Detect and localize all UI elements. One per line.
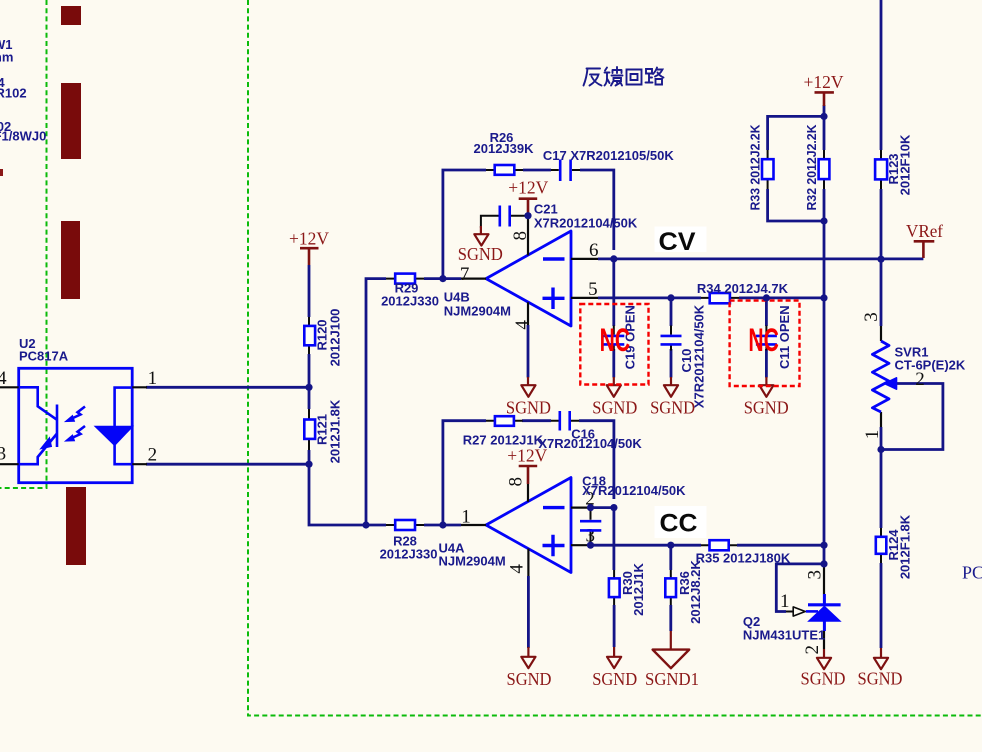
op-amp U4A NJM2904M: [439, 478, 590, 577]
svg-text:C11 OPEN: C11 OPEN: [777, 305, 792, 369]
wire R30 branch: [613, 508, 616, 647]
svg-text:2: 2: [802, 645, 823, 655]
svg-text:R32 2012J2.2K: R32 2012J2.2K: [804, 124, 819, 211]
svg-text:NJM2904M: NJM2904M: [439, 554, 506, 569]
svg-text:C17 X7R2012105/50K: C17 X7R2012105/50K: [543, 148, 674, 163]
title 反馈回路 (feedback loop) drawn as strokes: [584, 67, 664, 86]
NC dashed box 1 (around C19): [580, 304, 648, 385]
svg-text:F1/8WJ0: F1/8WJ0: [0, 129, 46, 144]
resistor R124: [876, 514, 913, 579]
svg-text:PC817A: PC817A: [19, 349, 69, 364]
power port VRef: [906, 221, 943, 258]
ground SGND (U4A pin4): [507, 647, 552, 689]
resistor R29: [381, 274, 439, 309]
net label CC: [655, 506, 707, 538]
wire Q2 reference loop: [776, 564, 824, 612]
svg-text:U4B: U4B: [444, 290, 470, 305]
svg-text:+12V: +12V: [804, 72, 844, 92]
capacitor C16: [538, 411, 642, 451]
maroon bar 3 (cropped component at left edge): [61, 221, 80, 299]
wire U4A pin4 to SGND: [527, 576, 530, 648]
ground SGND (C19): [592, 377, 637, 418]
svg-text:1: 1: [780, 591, 790, 612]
ground SGND (C10): [650, 377, 695, 418]
wire U2 pin1 to R120/R121 node: [146, 386, 309, 389]
svg-text:2012J1K: 2012J1K: [631, 563, 646, 616]
svg-text:NJM431UTE1: NJM431UTE1: [743, 628, 825, 643]
resistor R27: [463, 416, 544, 447]
NC dashed box 2 (around C11): [730, 301, 800, 386]
svg-text:3: 3: [0, 443, 6, 464]
svg-text:X7R2012104/50K: X7R2012104/50K: [692, 304, 707, 408]
power +12V (left, R120 chain): [289, 228, 329, 265]
ground SGND (R30): [592, 647, 637, 689]
svg-text:SGND: SGND: [592, 398, 637, 418]
maroon bar 4 (cropped component below U2): [66, 487, 86, 565]
ground SGND (C21): [458, 226, 503, 264]
svg-text:SGND: SGND: [458, 244, 503, 264]
svg-text:SGND: SGND: [506, 398, 551, 418]
resistor R28: [380, 520, 438, 562]
wire +12V column x=824 (R32 node to Q2): [823, 105, 826, 564]
svg-text:7: 7: [460, 264, 470, 285]
op-amp U4B NJM2904M: [444, 216, 598, 326]
optocoupler U2 PC817A: [0, 336, 147, 483]
ground SGND (R124): [858, 648, 903, 689]
ground SGND1 (R36): [645, 631, 699, 689]
wire right main vertical (VRef/R123/SVR1/R124 column): [880, 0, 883, 648]
svg-text:SGND: SGND: [650, 398, 695, 418]
wire R29 input line and x=366 vertical: [366, 279, 461, 525]
svg-text:+12V: +12V: [508, 177, 548, 197]
svg-text:R35 2012J180K: R35 2012J180K: [696, 551, 791, 566]
wire C19 branch from pin6 node: [612, 259, 615, 378]
resistor R120: [304, 309, 342, 367]
wire U4A feedback loop (R27/C16): [443, 421, 614, 525]
svg-text:R102: R102: [0, 86, 27, 101]
wire U2 pin2 to node: [146, 463, 309, 466]
svg-text:5: 5: [588, 279, 598, 300]
svg-text:VRef: VRef: [906, 221, 943, 241]
resistor R36: [665, 560, 703, 624]
capacitor C10: [661, 304, 707, 408]
wire CV net (pin6 to VRef): [598, 257, 923, 260]
svg-text:8: 8: [510, 231, 531, 241]
svg-text:+12V: +12V: [507, 446, 547, 466]
svg-text:1: 1: [148, 368, 158, 389]
svg-text:2012F1.8K: 2012F1.8K: [898, 514, 913, 579]
svg-text:R34 2012J4.7K: R34 2012J4.7K: [697, 281, 789, 296]
wire +12V via R120/R121 chain to R28 line: [309, 265, 461, 525]
svg-text:SGND1: SGND1: [645, 669, 699, 689]
potentiometer SVR1 CT-6P(E)2K: [872, 326, 966, 427]
svg-text:2012J330: 2012J330: [380, 547, 438, 562]
resistor R34: [697, 281, 789, 304]
svg-text:2012J100: 2012J100: [328, 309, 343, 367]
maroon bar 1 (cropped component at left edge): [61, 6, 81, 25]
svg-text:4: 4: [512, 320, 533, 330]
svg-text:2012F10K: 2012F10K: [898, 134, 913, 195]
capacitor C18: [580, 474, 686, 546]
wire R36 branch to SGND1: [669, 545, 672, 631]
capacitor C11 (not fitted): [756, 305, 792, 369]
maroon bar 2 (cropped component at left edge): [61, 83, 81, 159]
svg-text:SGND: SGND: [858, 669, 903, 689]
resistor R123: [875, 134, 912, 195]
svg-text:X7R2012104/50K: X7R2012104/50K: [538, 436, 642, 451]
resistor R35: [696, 540, 791, 566]
power +12V (R32/R33 divider): [804, 72, 844, 106]
svg-text:CV: CV: [659, 228, 696, 256]
svg-text:SGND: SGND: [744, 398, 789, 418]
capacitor C21: [481, 202, 638, 231]
wire pin5 net (to R34 and +12V divider): [598, 296, 824, 299]
shunt regulator Q2 NJM431UTE1: [743, 564, 841, 649]
ground SGND (C11): [744, 377, 789, 418]
svg-text:PC: PC: [962, 563, 982, 583]
svg-text:X7R2012104/50K: X7R2012104/50K: [534, 215, 638, 230]
svg-text:2: 2: [148, 444, 158, 465]
svg-text:2: 2: [915, 369, 925, 390]
resistor R26: [474, 130, 535, 175]
capacitor C17: [543, 148, 674, 181]
ground SGND (Q2 anode): [801, 649, 846, 689]
svg-text:mm: mm: [0, 50, 13, 65]
svg-text:3: 3: [805, 570, 826, 580]
ground SGND (U4B pin4): [506, 377, 551, 418]
svg-text:+12V: +12V: [289, 228, 329, 248]
power +12V (U4B pin8): [508, 177, 548, 215]
svg-text:R33 2012J2.2K: R33 2012J2.2K: [748, 124, 763, 211]
svg-text:NJM2904M: NJM2904M: [444, 304, 511, 319]
net label CV: [655, 227, 707, 257]
svg-text:2012J330: 2012J330: [381, 294, 439, 309]
svg-text:8: 8: [506, 477, 527, 487]
svg-text:4: 4: [0, 368, 7, 389]
green dashed sheet-partition border left: [0, 0, 47, 488]
svg-text:1: 1: [461, 506, 471, 527]
svg-text:2012J39K: 2012J39K: [474, 141, 535, 156]
wire U4B feedback loop (R26/C17): [443, 170, 614, 279]
svg-text:1: 1: [862, 430, 883, 440]
red tick at left edge: [0, 169, 3, 176]
resistor R33: [748, 124, 774, 211]
svg-text:NC: NC: [600, 322, 631, 358]
svg-text:6: 6: [589, 240, 599, 261]
wire C11 branch: [765, 298, 768, 378]
svg-text:SGND: SGND: [801, 669, 846, 689]
wire R33 parallel loop: [768, 116, 824, 221]
wire U4B pin4 to SGND: [527, 325, 530, 378]
svg-text:CC: CC: [660, 510, 698, 538]
resistor R30: [609, 563, 646, 616]
resistor R121: [304, 399, 342, 463]
wire CC net (pin3 to R35 to Q2 column): [589, 544, 824, 547]
svg-text:SGND: SGND: [507, 669, 552, 689]
svg-text:SGND: SGND: [592, 669, 637, 689]
svg-text:2012J1.8K: 2012J1.8K: [328, 399, 343, 463]
svg-text:C21: C21: [534, 202, 558, 217]
svg-text:X7R2012104/50K: X7R2012104/50K: [582, 483, 686, 498]
wire C10 branch: [670, 298, 673, 378]
wire U4A pin2 net to feedback/R30: [589, 506, 614, 509]
power +12V (U4A pin8): [507, 446, 547, 484]
green dashed sheet-partition border right (feedback block boundary): [248, 0, 982, 716]
resistor R32: [804, 124, 829, 211]
svg-text:3: 3: [861, 312, 882, 322]
svg-text:2012J8.2K: 2012J8.2K: [688, 560, 703, 624]
capacitor C19 (not fitted): [603, 305, 637, 369]
svg-text:CT-6P(E)2K: CT-6P(E)2K: [895, 357, 966, 372]
svg-text:4: 4: [507, 564, 528, 574]
wire SVR1 wiper loop: [881, 384, 943, 450]
svg-text:NC: NC: [748, 322, 779, 358]
